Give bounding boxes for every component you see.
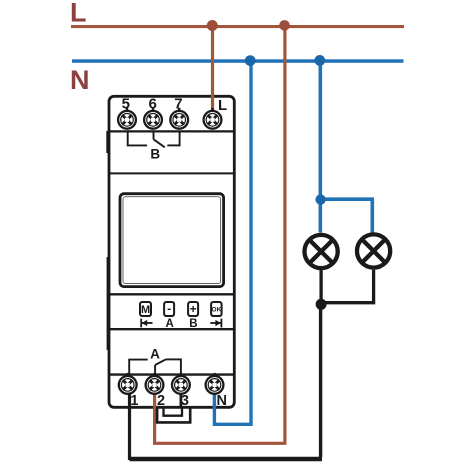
svg-text:B: B xyxy=(189,318,197,330)
svg-text:-: - xyxy=(167,302,171,316)
svg-text:N: N xyxy=(217,393,227,409)
svg-text:N: N xyxy=(70,65,90,95)
svg-text:M: M xyxy=(141,304,150,316)
svg-text:A: A xyxy=(150,346,160,361)
svg-text:1: 1 xyxy=(130,393,138,409)
svg-text:L: L xyxy=(218,97,227,114)
svg-text:L: L xyxy=(70,0,87,28)
svg-text:A: A xyxy=(165,318,173,330)
svg-text:+: + xyxy=(190,302,197,316)
svg-text:2: 2 xyxy=(157,393,165,409)
svg-text:OK: OK xyxy=(212,307,222,314)
svg-text:B: B xyxy=(150,147,160,162)
